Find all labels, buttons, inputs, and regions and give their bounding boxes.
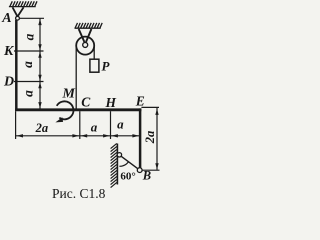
svg-text:E: E	[135, 94, 145, 109]
dim arrow up at K (below)	[38, 52, 41, 58]
svg-text:a: a	[91, 120, 98, 135]
angle arc 60	[119, 162, 128, 167]
tick at K	[14, 50, 44, 52]
moment arc M	[57, 101, 74, 119]
pulley wheel	[76, 37, 94, 55]
moment arrowhead	[55, 117, 63, 122]
wall line at B support	[116, 144, 118, 185]
pulley hub	[83, 42, 88, 47]
svg-text:H: H	[105, 95, 117, 110]
member E-B (right vertical bar)	[139, 108, 142, 167]
dim arrow up at A	[38, 19, 41, 25]
pin A	[16, 16, 20, 20]
member A-corner (vertical bar)	[15, 20, 18, 111]
svg-text:a: a	[21, 33, 36, 40]
extension line at beam left end	[15, 111, 17, 139]
pin on wall	[117, 153, 121, 157]
svg-text:K: K	[3, 44, 15, 59]
load P rectangle	[90, 59, 99, 72]
ceiling line at pulley	[75, 27, 101, 29]
svg-text:2a: 2a	[35, 121, 49, 135]
svg-text:Рис. С1.8: Рис. С1.8	[52, 186, 106, 201]
bottom dimension line	[16, 135, 140, 137]
dim arrow up at D (below)	[38, 82, 41, 88]
tick below C	[79, 111, 81, 139]
dim arrow down at B	[155, 163, 158, 169]
svg-text:B: B	[142, 169, 151, 183]
svg-text:M: M	[62, 87, 76, 102]
dim arrow right into C	[72, 134, 79, 137]
bracket triangle at support A	[13, 7, 24, 16]
svg-text:a: a	[20, 90, 35, 97]
dim arrow left at beam end	[16, 134, 23, 137]
svg-text:a: a	[117, 116, 124, 131]
dim arrow right into H	[103, 134, 110, 137]
tick below H	[110, 111, 112, 139]
ceiling hatching at A	[10, 1, 37, 6]
dim arrow right into E bar	[132, 134, 139, 137]
svg-text:2a: 2a	[143, 131, 157, 145]
svg-text:60°: 60°	[120, 170, 135, 182]
pin B	[137, 168, 142, 173]
pulley bracket triangle	[79, 29, 92, 42]
wall hatching at B support	[111, 143, 117, 187]
tick at D	[14, 81, 44, 83]
dim arrow down at D (above)	[38, 75, 41, 81]
dim arrow up at E	[155, 109, 158, 115]
svg-text:C: C	[81, 95, 91, 110]
tick at A	[20, 17, 45, 19]
dim arrow left into H	[111, 134, 118, 137]
beam (horizontal member to E)	[15, 108, 141, 111]
ceiling hatching at pulley	[75, 23, 102, 28]
svg-text:P: P	[102, 59, 111, 74]
vertical dimension line A-K-D-corner	[39, 18, 41, 108]
dim arrow left into C	[81, 134, 88, 137]
dim arrow down at beam	[38, 102, 41, 108]
rod from wall to B	[121, 156, 138, 168]
rope right (pulley to load P)	[93, 46, 95, 60]
rope left (pulley to C)	[75, 46, 77, 109]
right dimension line 2a	[156, 108, 158, 170]
ceiling line at A	[9, 6, 36, 8]
dim arrow down at K (above)	[38, 44, 41, 50]
svg-text:A: A	[1, 11, 11, 26]
extension line at E top	[141, 106, 159, 108]
extension line at B	[143, 169, 160, 171]
svg-text:a: a	[20, 61, 35, 68]
svg-text:D: D	[3, 74, 14, 89]
